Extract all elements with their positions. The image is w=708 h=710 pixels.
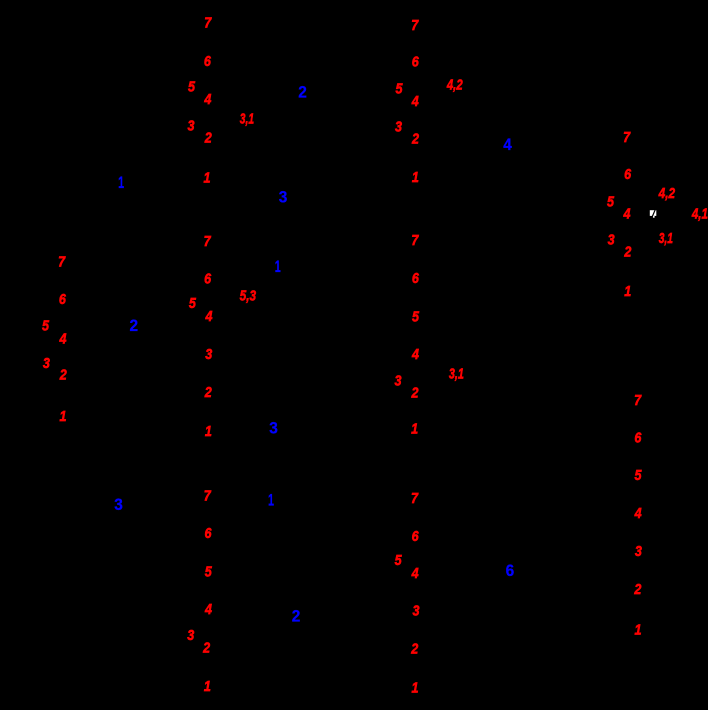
svg-text:2: 2 [204, 385, 212, 401]
svg-text:6: 6 [205, 526, 213, 542]
svg-text:3: 3 [205, 347, 212, 363]
svg-text:7: 7 [58, 254, 66, 270]
svg-text:4,2: 4,2 [446, 78, 463, 94]
svg-text:3,1: 3,1 [449, 367, 464, 383]
svg-text:7: 7 [411, 18, 419, 34]
svg-text:1: 1 [635, 622, 642, 638]
svg-text:3: 3 [43, 356, 50, 372]
svg-text:2: 2 [411, 385, 419, 401]
svg-text:5,3: 5,3 [240, 289, 256, 305]
svg-text:5: 5 [635, 468, 643, 484]
svg-text:5: 5 [395, 81, 403, 97]
svg-text:3: 3 [187, 628, 194, 644]
svg-text:1: 1 [411, 421, 418, 437]
svg-text:1: 1 [412, 681, 419, 697]
svg-text:2: 2 [292, 607, 301, 626]
svg-text:2: 2 [624, 245, 632, 261]
svg-text:6: 6 [412, 529, 420, 545]
svg-text:2: 2 [59, 368, 67, 384]
svg-text:6: 6 [412, 55, 420, 71]
svg-text:3: 3 [608, 233, 615, 249]
svg-text:4: 4 [503, 135, 512, 154]
svg-text:6: 6 [204, 54, 212, 70]
svg-text:1: 1 [624, 284, 631, 300]
svg-text:4,1: 4,1 [691, 207, 708, 223]
svg-text:4: 4 [59, 331, 67, 347]
svg-text:6: 6 [634, 430, 642, 446]
svg-text:4: 4 [623, 207, 631, 223]
svg-text:7: 7 [411, 233, 419, 249]
svg-text:1: 1 [205, 424, 212, 440]
svg-text:3: 3 [269, 419, 278, 438]
svg-text:2: 2 [634, 582, 642, 598]
svg-text:2: 2 [298, 83, 307, 102]
svg-text:4: 4 [204, 602, 212, 618]
svg-text:6: 6 [59, 292, 67, 308]
svg-text:5: 5 [395, 553, 403, 569]
svg-text:4: 4 [411, 566, 419, 582]
svg-text:6: 6 [506, 561, 515, 580]
junction marker (white) at tube V3 [650, 209, 657, 218]
svg-text:7: 7 [634, 393, 642, 409]
svg-text:7: 7 [411, 491, 419, 507]
svg-text:5: 5 [607, 194, 615, 210]
svg-text:1: 1 [118, 173, 124, 192]
svg-text:4: 4 [634, 506, 642, 522]
svg-text:6: 6 [412, 271, 420, 287]
svg-text:3,1: 3,1 [659, 231, 673, 247]
svg-text:1: 1 [412, 170, 419, 186]
svg-text:5: 5 [42, 318, 50, 334]
svg-text:3,1: 3,1 [240, 112, 254, 128]
svg-text:2: 2 [202, 641, 210, 657]
svg-text:4: 4 [411, 94, 419, 110]
svg-text:3: 3 [413, 603, 420, 619]
svg-text:3: 3 [635, 544, 642, 560]
svg-text:7: 7 [204, 234, 212, 250]
svg-text:4: 4 [411, 347, 419, 363]
svg-text:2: 2 [129, 316, 138, 335]
svg-text:6: 6 [204, 272, 212, 288]
svg-text:7: 7 [623, 130, 631, 146]
svg-text:6: 6 [624, 167, 632, 183]
svg-text:2: 2 [410, 641, 418, 657]
svg-text:7: 7 [204, 16, 212, 32]
svg-text:3: 3 [187, 118, 194, 134]
svg-text:4: 4 [205, 309, 213, 325]
svg-text:5: 5 [188, 79, 196, 95]
svg-text:2: 2 [411, 132, 419, 148]
svg-text:3: 3 [395, 374, 402, 390]
svg-text:3: 3 [395, 120, 402, 136]
svg-text:5: 5 [205, 564, 213, 580]
svg-text:2: 2 [204, 131, 212, 147]
svg-text:1: 1 [59, 409, 66, 425]
svg-text:1: 1 [275, 257, 281, 276]
svg-text:1: 1 [203, 171, 210, 187]
svg-text:7: 7 [204, 488, 212, 504]
svg-text:4: 4 [203, 92, 211, 108]
svg-text:4,2: 4,2 [658, 186, 675, 202]
svg-text:5: 5 [412, 310, 420, 326]
svg-text:1: 1 [204, 679, 211, 695]
svg-text:5: 5 [189, 296, 197, 312]
svg-text:3: 3 [114, 495, 123, 514]
svg-text:3: 3 [279, 188, 288, 207]
svg-text:1: 1 [268, 491, 274, 510]
